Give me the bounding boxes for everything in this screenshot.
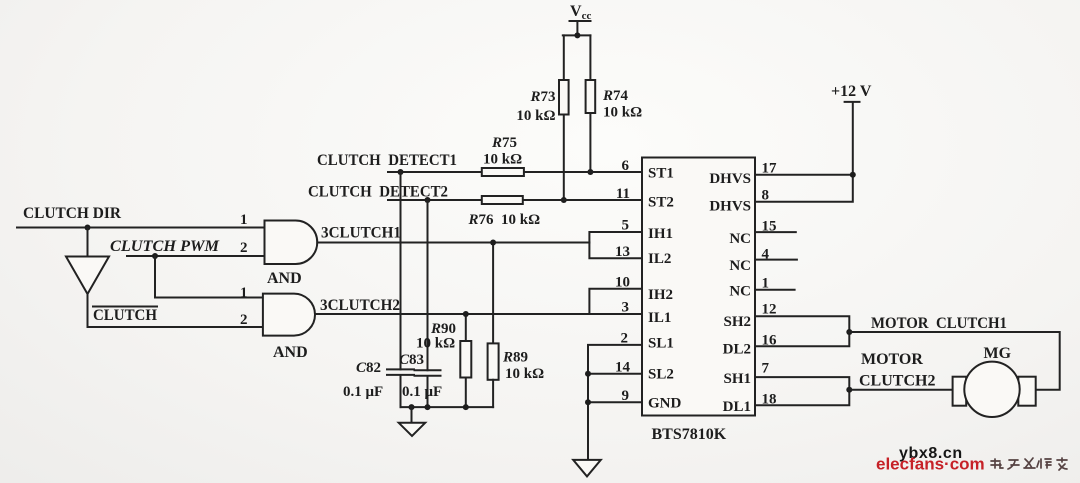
- junction DETECT1 to C82 branch: [398, 169, 404, 175]
- wire CLUTCH PWM to AND1 pin2: [127, 255, 265, 257]
- junction R74 to ST1 line: [587, 169, 593, 175]
- svg-text:CLUTCH2: CLUTCH2: [859, 373, 935, 390]
- svg-text:DL2: DL2: [723, 342, 751, 358]
- wire PWM branch to AND2 pin1: [155, 256, 263, 298]
- junction CLUTCH DIR branch: [85, 225, 91, 231]
- svg-text:ST2: ST2: [648, 195, 674, 211]
- svg-text:1: 1: [240, 285, 248, 301]
- junction Vcc stem: [574, 32, 580, 38]
- svg-text:AND: AND: [273, 344, 308, 361]
- junction R89 to 3CLUTCH1: [490, 240, 496, 246]
- svg-text:IH1: IH1: [648, 226, 673, 242]
- svg-text:R74: R74: [602, 88, 629, 104]
- svg-text:SH1: SH1: [723, 371, 751, 387]
- svg-text:9: 9: [622, 388, 630, 404]
- svg-text:+12 V: +12 V: [831, 83, 872, 100]
- svg-text:IH2: IH2: [648, 287, 673, 303]
- capacitor C82: [387, 369, 414, 407]
- svg-text:MG: MG: [984, 345, 1012, 362]
- wire ST1 net: [388, 171, 642, 173]
- junction ground stem: [409, 404, 415, 410]
- svg-text:IL1: IL1: [648, 310, 671, 326]
- power symbol +12 V: [831, 83, 872, 102]
- junction R90 to 3CLUTCH2: [463, 311, 469, 317]
- ground symbol left: [399, 407, 426, 436]
- svg-text:CLUTCH DIR: CLUTCH DIR: [23, 205, 121, 222]
- wire 3CLUTCH1 net: [317, 242, 589, 244]
- svg-text:7: 7: [762, 361, 770, 377]
- junction MOTOR CLUTCH2 tap: [846, 387, 852, 393]
- svg-text:R75: R75: [491, 135, 517, 151]
- svg-text:DHVS: DHVS: [709, 199, 751, 215]
- svg-text:10 kΩ: 10 kΩ: [505, 366, 544, 382]
- svg-text:BTS7810K: BTS7810K: [652, 426, 727, 443]
- resistor R74: [586, 35, 596, 172]
- svg-text:R73: R73: [529, 89, 555, 105]
- svg-text:C83: C83: [399, 352, 424, 368]
- svg-text:AND: AND: [267, 270, 302, 287]
- svg-text:2: 2: [621, 331, 629, 347]
- svg-text:Vcc: Vcc: [570, 3, 591, 22]
- wire DHVS pin8 riser: [755, 102, 853, 202]
- ground symbol IC: [573, 460, 601, 477]
- svg-text:CLUTCH: CLUTCH: [93, 307, 158, 324]
- svg-text:R76 10 kΩ: R76 10 kΩ: [468, 212, 541, 228]
- wire Vcc rail: [563, 34, 591, 36]
- svg-text:2: 2: [240, 240, 248, 256]
- svg-text:10 kΩ: 10 kΩ: [603, 105, 642, 121]
- svg-text:R89: R89: [502, 350, 528, 366]
- svg-text:12: 12: [762, 302, 777, 318]
- IC U3 BTS7810K body: [642, 158, 755, 416]
- svg-text:DL1: DL1: [723, 399, 751, 415]
- svg-text:CLUTCH PWM: CLUTCH PWM: [110, 238, 220, 255]
- svg-text:MOTOR: MOTOR: [861, 351, 923, 368]
- power symbol Vcc: [570, 3, 592, 35]
- svg-text:3CLUTCH2: 3CLUTCH2: [320, 297, 400, 314]
- svg-text:elecfans·com: elecfans·com: [876, 455, 985, 474]
- junction PWM branch: [152, 253, 158, 259]
- junction SL2: [585, 371, 591, 377]
- wire inverter output to AND2 pin2: [88, 294, 263, 327]
- resistor R75: [482, 168, 524, 176]
- svg-text:NC: NC: [729, 258, 751, 274]
- svg-text:SH2: SH2: [723, 314, 751, 330]
- svg-text:SL2: SL2: [648, 367, 674, 383]
- resistor R73: [559, 35, 569, 200]
- svg-text:SL1: SL1: [648, 336, 674, 352]
- svg-text:0.1 μF: 0.1 μF: [343, 384, 383, 400]
- wire DHVS pin17 to +12V: [755, 174, 853, 176]
- wire C82 branch from DETECT1: [400, 172, 402, 369]
- svg-text:MOTOR CLUTCH1: MOTOR CLUTCH1: [871, 315, 1007, 332]
- wire CLUTCH DIR to AND1 pin1: [17, 227, 265, 229]
- resistor R90: [460, 314, 471, 407]
- junction MOTOR CLUTCH1 tap: [846, 329, 852, 335]
- wire C83 branch from DETECT2: [427, 200, 429, 370]
- wire SH2/DL2 output bracket: [755, 316, 849, 346]
- wire MOTOR CLUTCH1 net: [849, 332, 1059, 390]
- svg-text:6: 6: [622, 158, 630, 174]
- svg-text:3CLUTCH1: 3CLUTCH1: [321, 225, 401, 242]
- svg-text:NC: NC: [729, 284, 751, 300]
- wire ST2 net: [388, 199, 642, 201]
- wire MOTOR CLUTCH2 net: [849, 389, 952, 391]
- svg-text:IL2: IL2: [648, 251, 671, 267]
- AND gate U2: [263, 294, 315, 336]
- svg-text:10 kΩ: 10 kΩ: [416, 336, 455, 352]
- node CLUTCH (inverted): [93, 307, 158, 325]
- svg-text:11: 11: [616, 186, 630, 202]
- motor MG terminal right: [1018, 377, 1035, 406]
- motor MG body: [964, 362, 1019, 417]
- svg-text:10: 10: [615, 275, 630, 291]
- wire IH2 input bracket: [589, 289, 642, 314]
- resistor R76: [482, 196, 523, 204]
- wire SH1/DL1 output bracket: [755, 377, 849, 405]
- svg-text:CLUTCH DETECT1: CLUTCH DETECT1: [317, 152, 457, 169]
- AND gate U1: [265, 221, 318, 265]
- svg-text:C82: C82: [356, 360, 381, 376]
- wire IH1/IL2 input bracket: [589, 232, 642, 258]
- wire RC bottom bus: [401, 406, 494, 408]
- inverter (CLUTCH bar generator): [66, 228, 109, 295]
- svg-text:DHVS: DHVS: [709, 171, 751, 187]
- junction DHVS rail: [850, 172, 856, 178]
- motor MG terminal left: [953, 377, 967, 406]
- wire SL1/SL2/GND bracket: [588, 345, 642, 460]
- svg-text:10 kΩ: 10 kΩ: [483, 152, 522, 168]
- resistor R89: [488, 243, 499, 408]
- wire NC pin1 stub: [755, 289, 795, 291]
- svg-text:14: 14: [615, 360, 631, 376]
- wire NC pin4 stub: [755, 259, 797, 261]
- svg-text:10 kΩ: 10 kΩ: [516, 108, 555, 124]
- junction C83 bottom: [425, 404, 431, 410]
- wire NC pin15 stub: [755, 231, 796, 233]
- svg-text:5: 5: [622, 218, 630, 234]
- junction R90 bottom: [463, 404, 469, 410]
- svg-text:2: 2: [240, 312, 248, 328]
- svg-text:ST1: ST1: [648, 166, 674, 182]
- svg-text:NC: NC: [729, 231, 751, 247]
- junction GND pin9: [585, 399, 591, 405]
- svg-text:0.1 μF: 0.1 μF: [402, 384, 442, 400]
- capacitor C83: [415, 370, 441, 407]
- svg-text:GND: GND: [648, 396, 682, 412]
- svg-text:1: 1: [240, 212, 248, 228]
- junction R73 to ST2 line: [561, 197, 567, 203]
- svg-text:3: 3: [622, 300, 630, 316]
- junction DETECT2 to C83 branch: [425, 197, 431, 203]
- watermark chinese characters: [991, 458, 1067, 470]
- wire 3CLUTCH2 / IL1 net: [315, 313, 642, 315]
- svg-text:13: 13: [615, 244, 630, 260]
